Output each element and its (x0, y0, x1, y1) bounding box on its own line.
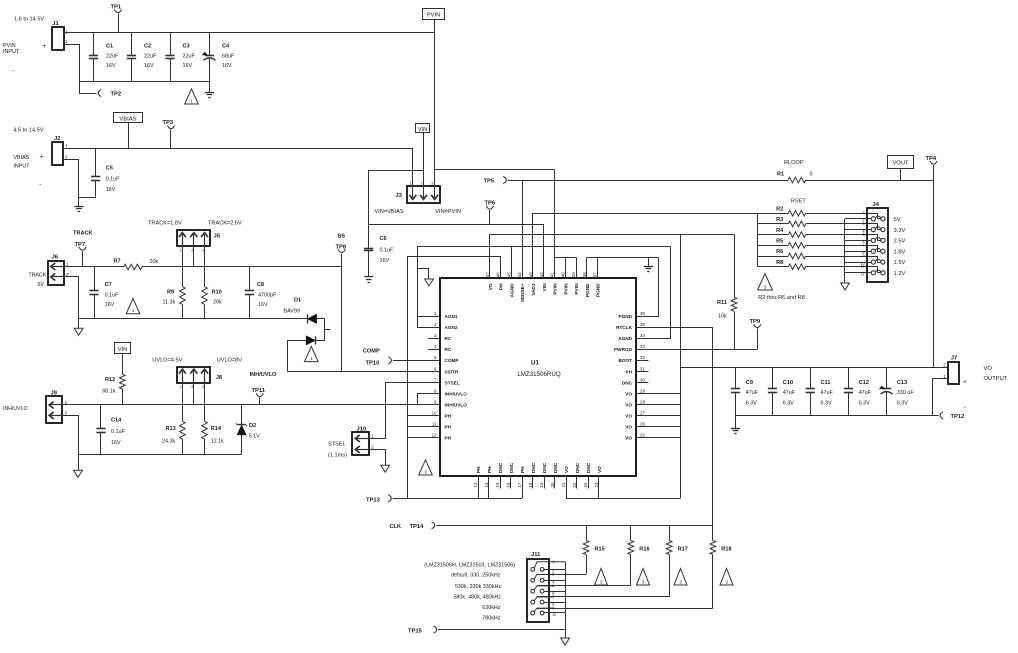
svg-text:3.3V: 3.3V (894, 228, 906, 234)
svg-text:+: + (43, 43, 47, 50)
svg-text:VO: VO (984, 366, 993, 372)
J11 pins row 2 (531, 578, 535, 582)
resistor R3 RSET (757, 223, 788, 225)
J11 pins row 1 (531, 568, 535, 572)
svg-text:RTCLK: RTCLK (616, 325, 632, 330)
svg-text:47uF: 47uF (746, 390, 759, 396)
svg-text:1: 1 (132, 308, 135, 313)
svg-text:40: 40 (560, 272, 565, 277)
svg-text:INH/UVLO: INH/UVLO (250, 372, 277, 378)
pin 12 PH (428, 437, 440, 439)
svg-text:(LMZ31506H, LMZ31503, LMZ31506: (LMZ31506H, LMZ31503, LMZ31506) (424, 562, 515, 568)
svg-text:16V: 16V (222, 63, 232, 69)
note triangle 1 input caps (185, 89, 199, 104)
net label VBIAS (114, 113, 143, 123)
capacitor C10 47uF 6.3V (772, 367, 774, 389)
pin 20 DNC (554, 476, 556, 488)
wire TRACK line to SS (142, 266, 342, 268)
pin 24 VO (598, 476, 600, 488)
pin 32 BOOT (636, 360, 648, 362)
svg-text:47uF: 47uF (783, 390, 796, 396)
svg-text:TRACK: TRACK (73, 231, 93, 237)
pin 3 RC (428, 338, 440, 340)
svg-text:TP2: TP2 (111, 92, 122, 98)
svg-text:PH: PH (445, 425, 452, 430)
J11 pins row 5 (531, 611, 535, 615)
pin 31 PH (636, 371, 648, 373)
svg-text:47: 47 (485, 272, 490, 277)
svg-text:2.5V: 2.5V (894, 239, 906, 245)
svg-text:580k, 480k, 480kHz: 580k, 480k, 480kHz (453, 595, 501, 601)
svg-text:PH: PH (445, 436, 452, 441)
resistor R7 20k (124, 264, 143, 270)
pin 37 PGND (597, 266, 599, 279)
svg-text:R17: R17 (678, 547, 688, 553)
svg-text:TP10: TP10 (366, 361, 380, 367)
svg-text:2: 2 (421, 181, 423, 185)
wire J9 pin 2 to ground (63, 416, 79, 471)
svg-text:7: 7 (863, 243, 865, 247)
svg-text:R16: R16 (639, 547, 649, 553)
wire COMP to pin 5 (393, 360, 440, 362)
svg-text:PVIN: PVIN (553, 283, 558, 295)
svg-text:STSEL: STSEL (445, 380, 460, 385)
svg-text:16V: 16V (183, 63, 193, 69)
svg-text:PH: PH (487, 466, 492, 473)
svg-text:RSET: RSET (791, 199, 807, 205)
wire J4 row 2 jumper (867, 224, 878, 230)
svg-text:VO: VO (625, 414, 632, 419)
svg-text:1.5V: 1.5V (894, 260, 906, 266)
svg-text:R9: R9 (167, 290, 174, 296)
svg-text:J11: J11 (531, 552, 541, 558)
svg-text:J5: J5 (214, 234, 221, 240)
pin 18 DNC (532, 476, 534, 488)
connector J9 INH/UVLO input (46, 396, 62, 423)
pin 36 PGND (636, 316, 648, 318)
wire AGND net to pin 45 and pin 34 (418, 247, 671, 328)
resistor R18 (712, 525, 714, 540)
capacitor C8 4700pF 16V (249, 267, 251, 291)
svg-text:2: 2 (65, 411, 68, 416)
svg-text:R12: R12 (105, 377, 115, 383)
svg-text:C12: C12 (859, 380, 869, 386)
svg-text:DNC: DNC (586, 462, 591, 473)
svg-text:6.3V: 6.3V (783, 400, 794, 406)
svg-text:3: 3 (202, 249, 204, 253)
wire VOUT down right side to J7 (933, 180, 935, 367)
svg-text:2: 2 (191, 249, 193, 253)
svg-text:16V: 16V (258, 302, 268, 308)
svg-text:C10: C10 (783, 380, 793, 386)
resistor R17 (669, 525, 671, 540)
svg-text:22uF: 22uF (106, 53, 119, 59)
svg-text:BAV99: BAV99 (284, 308, 300, 314)
svg-text:13: 13 (473, 482, 478, 487)
svg-text:6.3V: 6.3V (859, 400, 870, 406)
svg-text:-: - (39, 181, 41, 188)
svg-text:TP3: TP3 (163, 120, 174, 126)
svg-text:AGN2: AGN2 (445, 325, 458, 330)
wire J8 pin 3 to R14 (204, 383, 206, 421)
resistor R10 20k (202, 287, 208, 305)
svg-text:6.3V: 6.3V (746, 400, 757, 406)
svg-text:5V: 5V (38, 282, 45, 288)
jumper J8 UVLO select (177, 367, 210, 383)
svg-text:R4: R4 (776, 228, 784, 234)
pin 6 SS/TR (428, 371, 440, 373)
svg-text:3: 3 (552, 573, 554, 577)
svg-text:R1: R1 (777, 172, 784, 178)
svg-text:PGND: PGND (596, 283, 601, 297)
ground arrow J4 (841, 283, 850, 290)
svg-text:16V: 16V (111, 440, 121, 446)
svg-text:VO: VO (597, 466, 602, 473)
svg-text:23: 23 (583, 482, 588, 487)
resistor R14 12.1k (202, 421, 208, 439)
svg-text:TP1: TP1 (111, 5, 122, 11)
svg-text:18: 18 (528, 482, 533, 487)
wire VO bottom pins 21 24 (566, 489, 568, 499)
note triangle 1 at D1 (305, 346, 319, 361)
connector J6 TRACK input (48, 261, 64, 285)
op IC U1 LMZ31506RUQ (440, 278, 636, 476)
wire R18 to J11 pin 9 (537, 608, 713, 610)
pin 43 VADJ (532, 266, 534, 279)
note triangle 3 RSET (758, 274, 773, 291)
wire PVIN bus from J1 pin 2 (64, 32, 435, 34)
wire VO line to J7 (681, 367, 949, 369)
wire input cap bottom bus (79, 81, 209, 83)
resistor R5 RSET (757, 245, 788, 247)
connector J1 PVIN input (52, 27, 64, 50)
svg-text:3: 3 (863, 222, 865, 226)
svg-text:1: 1 (410, 181, 412, 185)
svg-text:44: 44 (517, 272, 522, 277)
svg-text:INH/UVLO: INH/UVLO (445, 391, 468, 396)
svg-text:TP9: TP9 (750, 319, 761, 325)
svg-text:20: 20 (550, 482, 555, 487)
wire R16 to J11 pin 5 (537, 585, 631, 587)
svg-text:6.3V: 6.3V (821, 400, 832, 406)
jumper J3 VIN select (407, 186, 440, 203)
svg-text:RC: RC (445, 336, 452, 341)
J4 pins row 6 (871, 271, 875, 275)
wire INH/UVLO pins 8-9 (418, 394, 441, 405)
svg-text:TP6: TP6 (485, 201, 496, 207)
svg-text:45: 45 (506, 272, 511, 277)
pin 1 AGN1 (428, 316, 440, 318)
svg-text:3: 3 (642, 579, 645, 584)
wire J11 even pin bus to ground (565, 562, 567, 638)
svg-text:C9: C9 (746, 380, 753, 386)
pin 23 DNC (588, 476, 590, 488)
pin 39 PVIN (576, 266, 578, 279)
pin 44 SENSE+ (522, 266, 524, 279)
svg-text:R18: R18 (721, 547, 731, 553)
svg-text:UVLO=8V: UVLO=8V (217, 358, 243, 364)
pin 13 PH (478, 476, 480, 488)
pin 29 VO (636, 393, 648, 395)
svg-text:1: 1 (371, 434, 374, 439)
svg-text:PH: PH (476, 466, 481, 473)
svg-text:PWRGD: PWRGD (614, 347, 633, 352)
svg-text:R15: R15 (595, 547, 605, 553)
svg-text:C4: C4 (222, 44, 230, 50)
test point TP12 (940, 412, 943, 419)
svg-text:R5: R5 (776, 239, 783, 245)
net label VOUT (888, 156, 914, 169)
pin 45 AGND (511, 266, 513, 279)
svg-text:1: 1 (190, 98, 193, 103)
pin 22 DNC (576, 476, 578, 488)
resistor R4 RSET (757, 234, 788, 236)
J4 pins row 3 (871, 238, 875, 242)
svg-text:COMP: COMP (363, 349, 380, 355)
note triangle 3 R18 (720, 569, 733, 586)
svg-text:LMZ31506RUQ: LMZ31506RUQ (517, 371, 561, 378)
svg-text:INPUT: INPUT (3, 49, 20, 55)
wire J8 pin 1 to R13 (182, 383, 184, 421)
svg-text:BOOT: BOOT (618, 358, 632, 363)
svg-text:19: 19 (539, 482, 544, 487)
wire PVIN label to bus and down to J3 (434, 20, 436, 33)
svg-text:3: 3 (600, 579, 603, 584)
svg-text:11: 11 (861, 265, 865, 269)
pin 17 PH (522, 476, 524, 488)
svg-text:VO: VO (564, 466, 569, 473)
wire J5 pin 2 to TRACK line (193, 247, 195, 268)
svg-text:J10: J10 (357, 427, 367, 433)
svg-text:TP14: TP14 (410, 524, 425, 530)
svg-text:26: 26 (640, 422, 645, 427)
J4 pins row 1 (871, 217, 875, 221)
svg-text:PVIN: PVIN (563, 283, 568, 295)
svg-text:R2: R2 (776, 206, 783, 212)
svg-text:RLOOP: RLOOP (784, 160, 804, 166)
svg-text:0.1uF: 0.1uF (105, 292, 119, 298)
svg-text:PH: PH (499, 283, 504, 290)
svg-text:22uF: 22uF (183, 53, 196, 59)
svg-text:J1: J1 (52, 21, 59, 27)
pin 38 PGND (586, 266, 588, 279)
svg-text:16V: 16V (105, 302, 115, 308)
svg-text:R2 thru R6 and R8: R2 thru R6 and R8 (758, 295, 805, 301)
svg-text:2: 2 (943, 363, 946, 368)
svg-text:5: 5 (863, 233, 865, 237)
svg-text:12.1k: 12.1k (211, 439, 224, 445)
svg-text:DNC: DNC (622, 380, 633, 385)
wire D1 to SS line (288, 341, 307, 372)
svg-text:10: 10 (552, 613, 556, 617)
pin 4 RC (428, 349, 440, 351)
wire INH/UVLO line (62, 404, 64, 406)
svg-text:C3: C3 (183, 44, 190, 50)
svg-text:10: 10 (432, 411, 437, 416)
svg-text:D1: D1 (294, 298, 301, 304)
resistor R8 RSET (757, 266, 788, 268)
svg-text:TP15: TP15 (408, 629, 423, 635)
svg-text:2: 2 (191, 385, 193, 389)
wire PGND top pins 37-38 (586, 257, 588, 278)
svg-text:PH: PH (445, 414, 452, 419)
connector J2 VBIAS input (52, 142, 63, 165)
wire J6 pin 2 down (65, 277, 79, 329)
svg-text:J4: J4 (873, 202, 880, 208)
svg-text:47uF: 47uF (859, 390, 872, 396)
capacitor C2 22uF 16V (131, 33, 133, 55)
svg-text:1: 1 (65, 143, 68, 148)
wire STSEL to J10 (369, 383, 441, 439)
resistor R9 11.3k (180, 287, 186, 305)
note triangle 1 track (126, 299, 140, 314)
svg-text:DNC: DNC (575, 462, 580, 473)
wire TRACK line (64, 266, 66, 269)
svg-text:11.3k: 11.3k (163, 300, 176, 306)
wire output cap ground bus TP12 (736, 415, 939, 417)
svg-text:DNC: DNC (553, 462, 558, 473)
resistor R16 (630, 525, 632, 540)
svg-text:PGND: PGND (585, 283, 590, 297)
wire J4 row 3 jumper (867, 235, 878, 241)
svg-text:INH/UVLO: INH/UVLO (445, 402, 468, 407)
capacitor C5 0.1uF 16V (95, 148, 97, 177)
svg-text:PVIN: PVIN (427, 13, 441, 19)
svg-text:37: 37 (593, 272, 598, 277)
svg-text:R7: R7 (114, 258, 121, 264)
svg-text:C5: C5 (106, 166, 113, 172)
capacitor C12 47uF 6.3V (848, 367, 850, 389)
wire VIN label to J3 pin 2 (423, 133, 425, 196)
svg-text:1: 1 (310, 356, 313, 361)
svg-text:3: 3 (431, 181, 433, 185)
wire SS/TR line to pin 6 (287, 371, 440, 373)
svg-text:C6: C6 (380, 236, 387, 242)
svg-text:VIN: VIN (418, 127, 427, 133)
wire CLK line (436, 525, 713, 527)
svg-text:22uF: 22uF (144, 53, 157, 59)
pin 42 VIN (543, 266, 545, 279)
svg-text:7: 7 (552, 595, 554, 599)
capacitor C14 0.1uF 16V (100, 405, 102, 429)
wire J7 pin 1 to TP12 bus (933, 379, 949, 416)
svg-text:5V: 5V (894, 217, 901, 223)
svg-text:(1.1ms): (1.1ms) (328, 453, 347, 459)
svg-text:SENSE+: SENSE+ (520, 283, 525, 302)
svg-text:RC: RC (445, 347, 452, 352)
svg-text:VO: VO (625, 436, 632, 441)
svg-text:34: 34 (640, 333, 645, 338)
svg-text:630kHz: 630kHz (482, 605, 501, 611)
svg-text:10k: 10k (718, 314, 727, 320)
ground at PGND (648, 257, 650, 266)
svg-text:5.1V: 5.1V (249, 434, 260, 440)
wire TP15 line (438, 629, 565, 631)
ground arrow AGND (418, 268, 429, 270)
wire VIN line to pin 42 (369, 225, 544, 279)
svg-text:0.1uF: 0.1uF (380, 247, 394, 253)
svg-text:1: 1 (180, 249, 182, 253)
svg-text:3: 3 (679, 579, 682, 584)
svg-text:+: + (40, 154, 44, 161)
pin 46 PH (500, 266, 502, 279)
ground at C6 (364, 276, 373, 278)
svg-text:33: 33 (640, 344, 645, 349)
svg-text:0.1uF: 0.1uF (111, 429, 125, 435)
wire VADJ pin 43 to RSET (533, 214, 789, 266)
svg-text:PH: PH (520, 466, 525, 473)
svg-text:TP4: TP4 (926, 156, 937, 162)
wire RTCLK pin 35 to CLK line (637, 328, 713, 526)
svg-text:35: 35 (640, 322, 645, 327)
wire PVIN to J3 pin 3 and pin 41 (434, 33, 436, 196)
header J11 frequency select (527, 559, 549, 622)
pin 7 STSEL (428, 382, 440, 384)
svg-text:VO: VO (625, 402, 632, 407)
ground at J2 (74, 206, 83, 208)
pin 14 PH (488, 476, 490, 488)
svg-text:22: 22 (572, 482, 577, 487)
svg-text:VO: VO (488, 283, 493, 290)
svg-text:17: 17 (517, 482, 522, 487)
wire R17 to J11 pin 7 (537, 596, 669, 598)
svg-text:1.6 to 14.5V: 1.6 to 14.5V (14, 17, 44, 23)
svg-text:3: 3 (725, 579, 728, 584)
svg-text:46: 46 (496, 272, 501, 277)
pin 47 VO (489, 266, 491, 279)
capacitor C1 22uF 16V (93, 33, 95, 55)
pin 2 AGN2 (428, 327, 440, 329)
svg-text:3: 3 (424, 469, 427, 474)
connector J7 VO output (948, 362, 959, 384)
note triangle 3 R16 (637, 569, 650, 586)
svg-text:C8: C8 (257, 282, 264, 288)
svg-text:SS: SS (338, 233, 346, 239)
pin 35 RTCLK (636, 327, 648, 329)
svg-text:0: 0 (810, 172, 813, 178)
ground arrow J11 (561, 638, 570, 645)
svg-text:OUTPUT: OUTPUT (984, 376, 1008, 382)
J11 pins row 4 (531, 600, 535, 604)
wire PWRGD pin 33 to R11 and TP9 (636, 349, 757, 351)
svg-text:12: 12 (861, 273, 865, 277)
svg-text:TP13: TP13 (366, 497, 381, 503)
jumper J5 TRACK select (177, 230, 210, 246)
wire J8 pin 2 to INH line (193, 383, 195, 405)
wire PVIN top bus pins 39-41 (565, 257, 567, 278)
svg-text:20k: 20k (213, 300, 222, 306)
wire AGND pins 1-2 tie (418, 317, 441, 328)
pin 9 INH/UVLO (428, 404, 440, 406)
wire INH lower bus (78, 454, 242, 456)
svg-text:14: 14 (484, 482, 489, 487)
resistor R6 RSET (757, 256, 788, 258)
svg-text:VBIAS: VBIAS (119, 116, 136, 122)
svg-text:780kHz: 780kHz (482, 616, 501, 622)
wire SENSE+ / RLOOP line (508, 180, 788, 182)
pin 40 PVIN (565, 266, 567, 279)
svg-text:STSEL: STSEL (328, 442, 346, 448)
svg-text:PVIN: PVIN (574, 283, 579, 295)
wire J10 pin 2 to ground (369, 450, 386, 466)
svg-text:5: 5 (552, 584, 554, 588)
svg-text:UVLO=4.5V: UVLO=4.5V (152, 358, 182, 364)
pin 34 AGND (636, 338, 648, 340)
wire J5 pin 3 to R10 (204, 247, 206, 287)
wire J4 ground bus (844, 219, 846, 283)
svg-text:VO: VO (625, 425, 632, 430)
svg-text:PGND: PGND (618, 314, 632, 319)
